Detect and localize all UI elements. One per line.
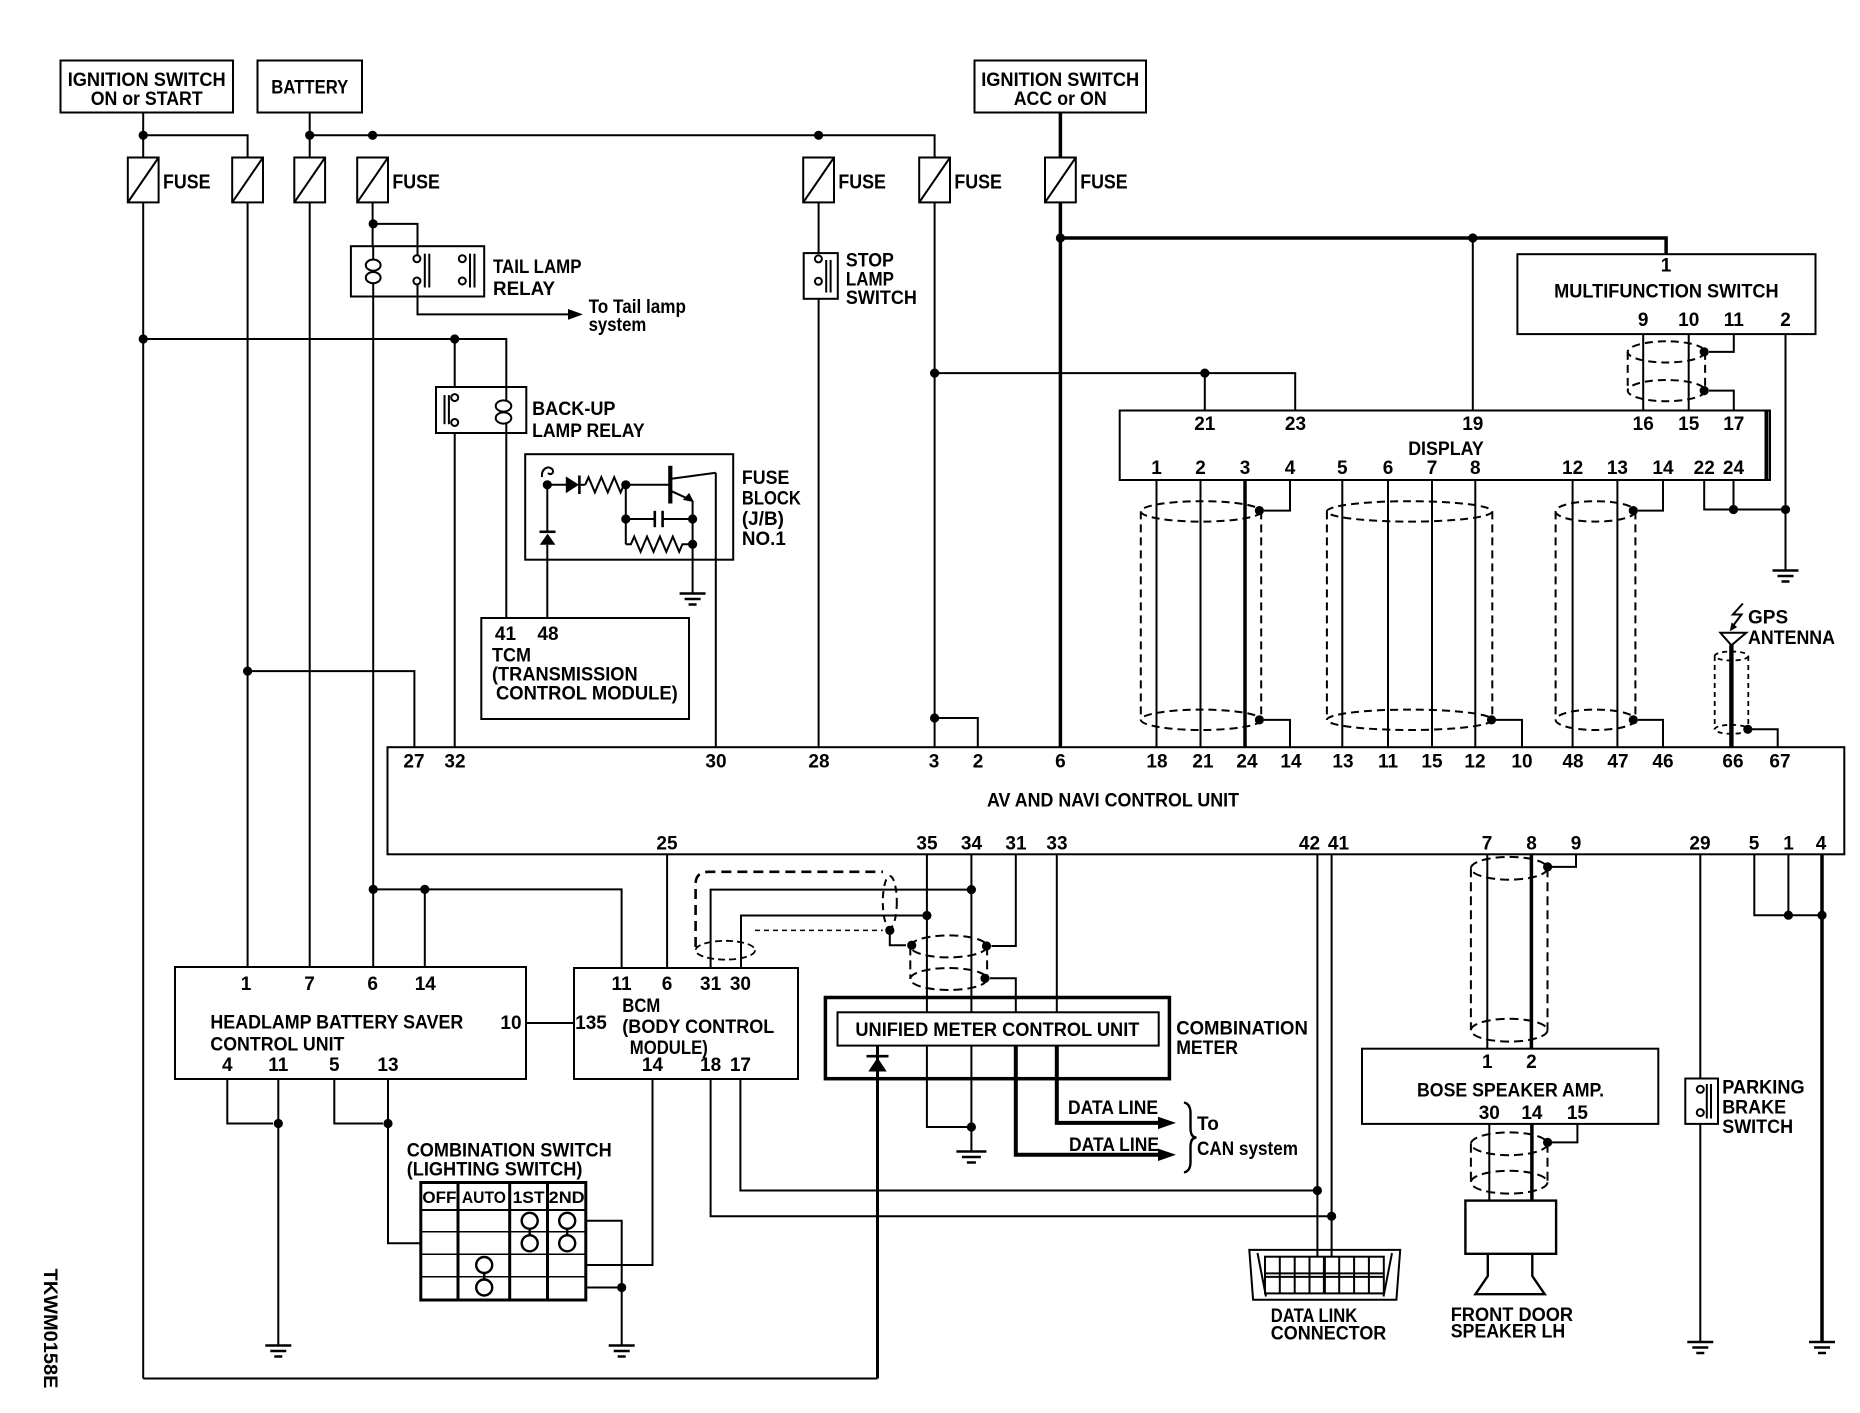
svg-text:17: 17	[1723, 414, 1744, 435]
GPS lightning symbol	[1730, 604, 1743, 632]
tail lamp relay contact 1	[413, 246, 429, 296]
wire BCM 14 to switch row3	[586, 1079, 653, 1265]
stop lamp switch box	[804, 253, 838, 299]
svg-text:DISPLAY: DISPLAY	[1408, 439, 1484, 460]
svg-text:COMBINATION: COMBINATION	[1176, 1019, 1308, 1040]
pin labels AV bottom row	[656, 834, 1826, 855]
pin labels AV top row	[403, 752, 1790, 773]
wire emitter down	[692, 501, 694, 594]
AV and NAVI control unit box	[388, 747, 1845, 854]
svg-text:47: 47	[1607, 752, 1628, 773]
node AV pin2 tap	[930, 713, 939, 722]
svg-text:28: 28	[808, 752, 829, 773]
resistor R2	[626, 537, 693, 552]
display box thick right edge	[1765, 411, 1769, 481]
svg-text:system: system	[589, 315, 647, 336]
svg-text:15: 15	[1421, 752, 1443, 773]
wire AV 8 to BOSE 2 (bold)	[1530, 854, 1534, 1048]
svg-text:3: 3	[929, 752, 940, 773]
svg-text:7: 7	[1427, 458, 1438, 479]
node AV34 join	[967, 885, 976, 894]
svg-text:7: 7	[1482, 834, 1493, 855]
fusible element curl	[542, 467, 553, 477]
svg-text:30: 30	[1479, 1103, 1500, 1124]
capacitor C1	[626, 511, 693, 527]
wire AV 41 to DLC	[1331, 854, 1333, 1256]
lighting switch contacts AUTO	[476, 1257, 492, 1296]
fuse F5 (stop lamp)	[803, 158, 834, 203]
svg-text:BATTERY: BATTERY	[271, 78, 348, 99]
ground meter	[956, 1152, 986, 1163]
svg-text:18: 18	[700, 1055, 721, 1076]
wire fuse F4 to relay coil	[372, 202, 374, 246]
svg-text:ANTENNA: ANTENNA	[1748, 628, 1835, 649]
wire HBS 5 branch	[334, 1079, 383, 1124]
node FB-E (R2 right)	[688, 540, 697, 549]
wire backup contact to AV pin 32	[454, 433, 456, 747]
shield cylinder speaker feed	[1471, 857, 1548, 1042]
svg-text:1: 1	[1783, 834, 1794, 855]
lighting switch contacts 2ND	[559, 1213, 575, 1252]
wire AV34 to ground	[970, 1079, 972, 1152]
svg-text:48: 48	[1562, 752, 1583, 773]
svg-text:11: 11	[1724, 310, 1745, 331]
svg-text:13: 13	[377, 1055, 398, 1076]
wire shield2 bottom to AV 10	[1496, 720, 1522, 747]
node d24 junction	[1729, 505, 1738, 514]
wire display 3 to AV 24 (bold)	[1243, 480, 1247, 747]
svg-text:(J/B): (J/B)	[742, 509, 784, 530]
wire AV 35 into meter	[926, 854, 928, 1012]
wire MFS 10 to display 15	[1688, 334, 1690, 410]
svg-text:31: 31	[1005, 834, 1027, 855]
svg-text:SWITCH: SWITCH	[846, 288, 917, 309]
node speaker shield top	[1543, 862, 1552, 871]
svg-text:33: 33	[1046, 834, 1067, 855]
wire relay contact to tail lamp system	[418, 297, 570, 315]
parking brake switch box	[1685, 1079, 1718, 1124]
wire ignition stem	[142, 113, 144, 158]
svg-text:2: 2	[1526, 1052, 1537, 1073]
node meter ground join	[967, 1122, 976, 1131]
resistor R1	[585, 477, 624, 492]
node FB-A	[543, 480, 552, 489]
wire AV 29 to parking brake switch	[1699, 854, 1701, 1078]
svg-text:FUSE: FUSE	[1080, 172, 1128, 194]
parking brake switch contacts	[1697, 1084, 1711, 1119]
svg-text:2: 2	[1195, 458, 1206, 479]
svg-text:13: 13	[1607, 458, 1628, 479]
svg-text:13: 13	[1332, 752, 1353, 773]
node display pin19 tap	[1468, 233, 1477, 242]
display box	[1120, 411, 1770, 481]
svg-text:FUSE: FUSE	[838, 172, 886, 194]
svg-text:FUSE: FUSE	[163, 172, 211, 194]
svg-text:66: 66	[1722, 752, 1743, 773]
svg-text:12: 12	[1562, 458, 1583, 479]
wire fuse F1 down-left rail	[142, 202, 144, 1378]
battery box	[258, 61, 363, 113]
svg-text:ACC or ON: ACC or ON	[1014, 89, 1107, 110]
wire bus y339 to backup coil	[143, 339, 506, 387]
svg-text:6: 6	[662, 974, 673, 995]
shield cylinder meter pair	[910, 935, 987, 990]
node FB-B	[621, 480, 630, 489]
wire branch to AV pin 2	[935, 718, 978, 747]
wire node A to diode	[547, 484, 566, 486]
svg-text:48: 48	[537, 624, 558, 645]
svg-text:AV AND NAVI CONTROL UNIT: AV AND NAVI CONTROL UNIT	[987, 791, 1239, 812]
wire data line 1 (CAN-H)	[1057, 1046, 1159, 1123]
wire data line 2 (CAN-L)	[1016, 1046, 1159, 1155]
wire AV 9 to speaker shield	[1552, 854, 1576, 867]
wire AV 31 to shield5	[992, 854, 1016, 946]
svg-text:METER: METER	[1176, 1038, 1238, 1059]
transistor Q1 (NPN)	[670, 466, 716, 504]
wire HBS 4 branch	[227, 1079, 273, 1124]
wire display supply bus	[935, 373, 1296, 410]
wire AV 42 to DLC	[1316, 854, 1318, 1256]
node battery bus C	[814, 131, 823, 140]
svg-text:6: 6	[1055, 752, 1066, 773]
svg-text:29: 29	[1689, 834, 1710, 855]
fuse F4 (tail lamp)	[357, 158, 388, 203]
node battery bus B	[368, 131, 377, 140]
wire ACC stem	[1059, 113, 1063, 158]
node HBS 4/11 join	[274, 1119, 283, 1128]
back-up relay coil	[496, 387, 512, 433]
node AV4 join	[1817, 911, 1826, 920]
data link connector	[1249, 1250, 1400, 1300]
lighting switch contacts 1ST	[522, 1213, 538, 1252]
svg-text:22: 22	[1694, 458, 1715, 479]
svg-text:17: 17	[730, 1055, 751, 1076]
svg-text:10: 10	[500, 1013, 521, 1034]
svg-text:6: 6	[367, 974, 378, 995]
node battery bus A	[305, 131, 314, 140]
svg-text:ON or START: ON or START	[91, 89, 203, 110]
svg-text:14: 14	[1280, 752, 1302, 773]
wire display 7 to AV 15	[1431, 480, 1433, 747]
svg-text:5: 5	[1337, 458, 1348, 479]
svg-text:25: 25	[656, 834, 678, 855]
svg-text:TCM: TCM	[492, 646, 531, 667]
svg-text:MULTIFUNCTION SWITCH: MULTIFUNCTION SWITCH	[1554, 282, 1779, 303]
wire ACC bus to multifunction switch	[1060, 238, 1666, 254]
node ignition bus	[139, 131, 148, 140]
svg-text:AUTO: AUTO	[462, 1188, 506, 1207]
node display pin21 tap	[1200, 369, 1209, 378]
shield cylinder display group 1	[1141, 501, 1261, 730]
wire display 13 to AV 47	[1616, 480, 1618, 747]
shield cylinder GPS	[1715, 652, 1749, 734]
wire branch to relay contact	[373, 224, 417, 246]
shield cylinder speaker out	[1471, 1132, 1548, 1193]
svg-text:TAIL LAMP: TAIL LAMP	[493, 257, 582, 278]
node AV35 join	[922, 911, 931, 920]
wire stub HBS pin 14	[424, 889, 426, 967]
shield cylinder MFS pair	[1628, 341, 1705, 401]
fuse F6	[919, 158, 950, 203]
arrow to tail lamp system	[568, 309, 583, 320]
tail lamp relay K1 box	[351, 246, 484, 296]
svg-text:11: 11	[611, 974, 632, 995]
svg-text:41: 41	[495, 624, 517, 645]
svg-text:4: 4	[1285, 458, 1296, 479]
svg-text:15: 15	[1567, 1103, 1589, 1124]
svg-text:(TRANSMISSION: (TRANSMISSION	[492, 665, 638, 686]
stop lamp switch contacts	[815, 255, 831, 292]
wire branch to AV pin 27	[248, 671, 415, 747]
svg-text:BRAKE: BRAKE	[1722, 1097, 1786, 1118]
svg-text:14: 14	[1521, 1103, 1543, 1124]
wire collector to AV pin 30	[715, 473, 717, 747]
svg-text:135: 135	[575, 1013, 607, 1034]
wire AV 25 to BCM 6	[666, 854, 668, 968]
svg-text:15: 15	[1678, 414, 1700, 435]
node shield5 left	[907, 941, 916, 950]
svg-text:RELAY: RELAY	[493, 279, 555, 300]
svg-text:CONNECTOR: CONNECTOR	[1271, 1324, 1387, 1345]
svg-text:BCM: BCM	[622, 996, 660, 1017]
svg-text:1: 1	[1482, 1052, 1493, 1073]
svg-text:SWITCH: SWITCH	[1722, 1117, 1793, 1138]
svg-text:27: 27	[403, 752, 424, 773]
node HBS6 tap	[369, 885, 378, 894]
wire ground stem display	[1785, 510, 1787, 571]
wire fuse F7 down to AV pin 6	[1059, 202, 1063, 747]
svg-text:3: 3	[1240, 458, 1251, 479]
wire BCM 30 to AV 35	[741, 916, 927, 969]
svg-text:UNIFIED METER CONTROL UNIT: UNIFIED METER CONTROL UNIT	[855, 1020, 1139, 1041]
wire shield1 bottom to AV 14	[1264, 720, 1290, 747]
wire node B to transistor base	[626, 484, 669, 486]
wire battery bus	[310, 135, 935, 157]
svg-text:32: 32	[444, 752, 465, 773]
wire shield bottom to display 17	[1709, 391, 1734, 411]
wire display 8 to AV 12	[1474, 480, 1476, 747]
svg-text:COMBINATION SWITCH: COMBINATION SWITCH	[407, 1141, 612, 1162]
wire stop switch to AV pin 28	[818, 299, 820, 747]
svg-text:8: 8	[1526, 834, 1537, 855]
wire HBS 13 to lighting switch	[388, 1079, 421, 1243]
svg-text:HEADLAMP BATTERY SAVER: HEADLAMP BATTERY SAVER	[210, 1012, 463, 1033]
svg-text:(LIGHTING SWITCH): (LIGHTING SWITCH)	[407, 1160, 583, 1181]
svg-text:18: 18	[1146, 752, 1167, 773]
svg-text:30: 30	[730, 974, 751, 995]
svg-text:14: 14	[1652, 458, 1674, 479]
svg-text:21: 21	[1192, 752, 1214, 773]
svg-text:4: 4	[1816, 834, 1827, 855]
svg-text:34: 34	[961, 834, 983, 855]
diode D1 (series)	[566, 476, 579, 493]
svg-text:10: 10	[1678, 310, 1699, 331]
svg-text:BACK-UP: BACK-UP	[532, 399, 616, 420]
shield bent cylinder BCM pair	[696, 872, 897, 960]
wire AV34 below meter box	[970, 1046, 972, 1079]
node DLC-B join	[1327, 1212, 1336, 1221]
svg-text:10: 10	[1511, 752, 1532, 773]
node FB-D (cap right)	[688, 514, 697, 523]
node F2 branch y671	[243, 667, 252, 676]
svg-text:CONTROL MODULE): CONTROL MODULE)	[496, 684, 678, 705]
svg-text:5: 5	[329, 1055, 340, 1076]
svg-text:9: 9	[1571, 834, 1582, 855]
svg-text:1: 1	[1661, 256, 1672, 277]
wire parking brake to ground	[1699, 1124, 1701, 1342]
node shield3 bottom	[1629, 715, 1638, 724]
wire MFS 11 to shield top	[1709, 334, 1734, 352]
wire shield4 to shield5	[890, 930, 906, 945]
svg-text:2: 2	[973, 752, 984, 773]
fuse F2	[232, 158, 263, 203]
svg-text:4: 4	[222, 1055, 233, 1076]
svg-text:35: 35	[916, 834, 938, 855]
node shield5 right bottom	[980, 974, 989, 983]
wire relay coil down to HBS pin 6	[372, 297, 374, 968]
multifunction switch box	[1517, 254, 1815, 334]
svg-text:21: 21	[1194, 414, 1216, 435]
wire MFS 9 to display 16	[1642, 334, 1644, 410]
wire HBS14/BCM11 net	[373, 889, 621, 968]
node shield4 drain	[885, 926, 894, 935]
wire AV 5 join run	[1754, 854, 1822, 915]
svg-text:PARKING: PARKING	[1722, 1078, 1804, 1099]
back-up lamp relay K2 box	[436, 387, 526, 433]
svg-text:GPS: GPS	[1748, 608, 1788, 629]
node speaker shield2 top	[1543, 1138, 1552, 1147]
svg-text:BOSE SPEAKER AMP.: BOSE SPEAKER AMP.	[1417, 1081, 1604, 1102]
node shield2 bottom	[1487, 715, 1496, 724]
wire display 12 to AV 48	[1572, 480, 1574, 747]
front door speaker LH symbol	[1465, 1201, 1556, 1295]
wire meter ground run	[927, 1079, 972, 1127]
node HBS14 tap	[420, 885, 429, 894]
svg-text:2: 2	[1780, 310, 1791, 331]
wire switch row4 to ground join	[586, 1287, 622, 1289]
wire display 4 to shield1 top	[1264, 480, 1290, 511]
svg-text:31: 31	[700, 974, 722, 995]
svg-text:NO.1: NO.1	[742, 529, 786, 550]
ground parking brake	[1687, 1342, 1713, 1353]
wire BOSE 30 to speaker	[1488, 1124, 1490, 1201]
wire MFS 2 down	[1785, 334, 1787, 509]
svg-text:2ND: 2ND	[549, 1188, 585, 1207]
combination meter box	[825, 998, 1169, 1079]
wire BCM 31 to AV 34	[711, 890, 972, 968]
node shield3 top	[1629, 506, 1638, 515]
fuse block J/B NO.1 box	[525, 454, 733, 560]
wire stub display pin 21	[1204, 373, 1206, 410]
svg-text:46: 46	[1652, 752, 1673, 773]
svg-text:12: 12	[1464, 752, 1485, 773]
wire display 22 ground run	[1704, 480, 1785, 510]
wire AV 34 into meter	[970, 854, 972, 1012]
fuse F1 (ignition)	[128, 158, 159, 203]
svg-text:IGNITION SWITCH: IGNITION SWITCH	[68, 70, 226, 91]
svg-text:16: 16	[1633, 414, 1654, 435]
svg-text:IGNITION SWITCH: IGNITION SWITCH	[981, 70, 1139, 91]
wire BCM 18 to DLC	[711, 1079, 1332, 1216]
svg-text:BLOCK: BLOCK	[742, 489, 801, 510]
svg-text:CONTROL UNIT: CONTROL UNIT	[210, 1034, 344, 1055]
svg-text:CAN system: CAN system	[1197, 1139, 1298, 1160]
wire battery stem	[309, 113, 311, 158]
wire backup contact up	[454, 339, 456, 387]
wire BCM 17 to DLC	[740, 1079, 1317, 1191]
GPS antenna triangle	[1720, 633, 1746, 646]
unified meter control unit box	[838, 1012, 1159, 1045]
wire display 5 to AV 13	[1341, 480, 1343, 747]
svg-text:23: 23	[1285, 414, 1306, 435]
BOSE speaker amp box	[1362, 1049, 1658, 1124]
svg-text:TKWM0158E: TKWM0158E	[39, 1269, 60, 1389]
svg-text:24: 24	[1236, 752, 1258, 773]
wire display 24 stub	[1733, 480, 1735, 510]
node switch ground join	[617, 1283, 626, 1292]
wire AV 1 stub	[1787, 854, 1789, 915]
svg-text:11: 11	[1378, 752, 1399, 773]
node shield MFS bottom	[1700, 386, 1709, 395]
svg-text:1: 1	[241, 974, 252, 995]
svg-text:41: 41	[1328, 834, 1350, 855]
node shield MFS top	[1700, 347, 1709, 356]
svg-text:OFF: OFF	[422, 1188, 456, 1207]
diode D3 (meter)	[867, 1046, 889, 1379]
fuse F3 (battery)	[294, 158, 325, 203]
svg-text:SPEAKER LH: SPEAKER LH	[1451, 1322, 1566, 1343]
TCM box	[481, 618, 689, 719]
wire AV 4 to ground (bold)	[1820, 854, 1824, 1342]
ground display/MFS	[1773, 571, 1799, 582]
node HBS 5/13 join	[383, 1119, 392, 1128]
node FB-C (cap left)	[621, 514, 630, 523]
wire bottom rail to meter diode	[143, 1378, 877, 1380]
wire display 6 to AV 11	[1387, 480, 1389, 747]
svg-text:LAMP RELAY: LAMP RELAY	[532, 421, 645, 442]
headlamp battery saver control unit box	[175, 967, 526, 1079]
wire AV 7 to BOSE 1	[1486, 854, 1488, 1048]
svg-text:8: 8	[1470, 458, 1481, 479]
node tail relay branch	[369, 219, 378, 228]
wire GPS coax to AV 66	[1729, 645, 1733, 747]
fuse F7 (ACC)	[1045, 158, 1076, 203]
wire shield5 to meter (CAN-L)	[990, 978, 1016, 1012]
wire AV35 below meter box	[926, 1046, 928, 1079]
wire BOSE 15 to speaker shield 2	[1552, 1124, 1577, 1143]
node display bus tap	[930, 369, 939, 378]
wire node B down to cap	[625, 485, 627, 544]
wire display 14 to shield3 top	[1638, 480, 1663, 511]
node shield1 bottom	[1255, 715, 1264, 724]
svg-text:(BODY CONTROL: (BODY CONTROL	[622, 1017, 774, 1038]
svg-text:7: 7	[304, 974, 315, 995]
wire fuse F2 down	[247, 202, 249, 967]
wire display 1 to AV 18	[1156, 480, 1158, 747]
tail lamp relay coil	[366, 246, 381, 296]
wire BOSE 14 to speaker (bold)	[1530, 1124, 1534, 1201]
svg-text:1: 1	[1151, 458, 1162, 479]
svg-text:67: 67	[1769, 752, 1790, 773]
arrow data line 1	[1158, 1117, 1176, 1129]
svg-text:9: 9	[1638, 310, 1649, 331]
ground lighting switch	[609, 1346, 635, 1357]
wire display pin 19 up	[1472, 238, 1474, 411]
ground AV 4	[1809, 1342, 1835, 1353]
node DLC-A join	[1313, 1186, 1322, 1195]
shield cylinder display group 3	[1556, 501, 1636, 730]
svg-text:5: 5	[1749, 834, 1760, 855]
